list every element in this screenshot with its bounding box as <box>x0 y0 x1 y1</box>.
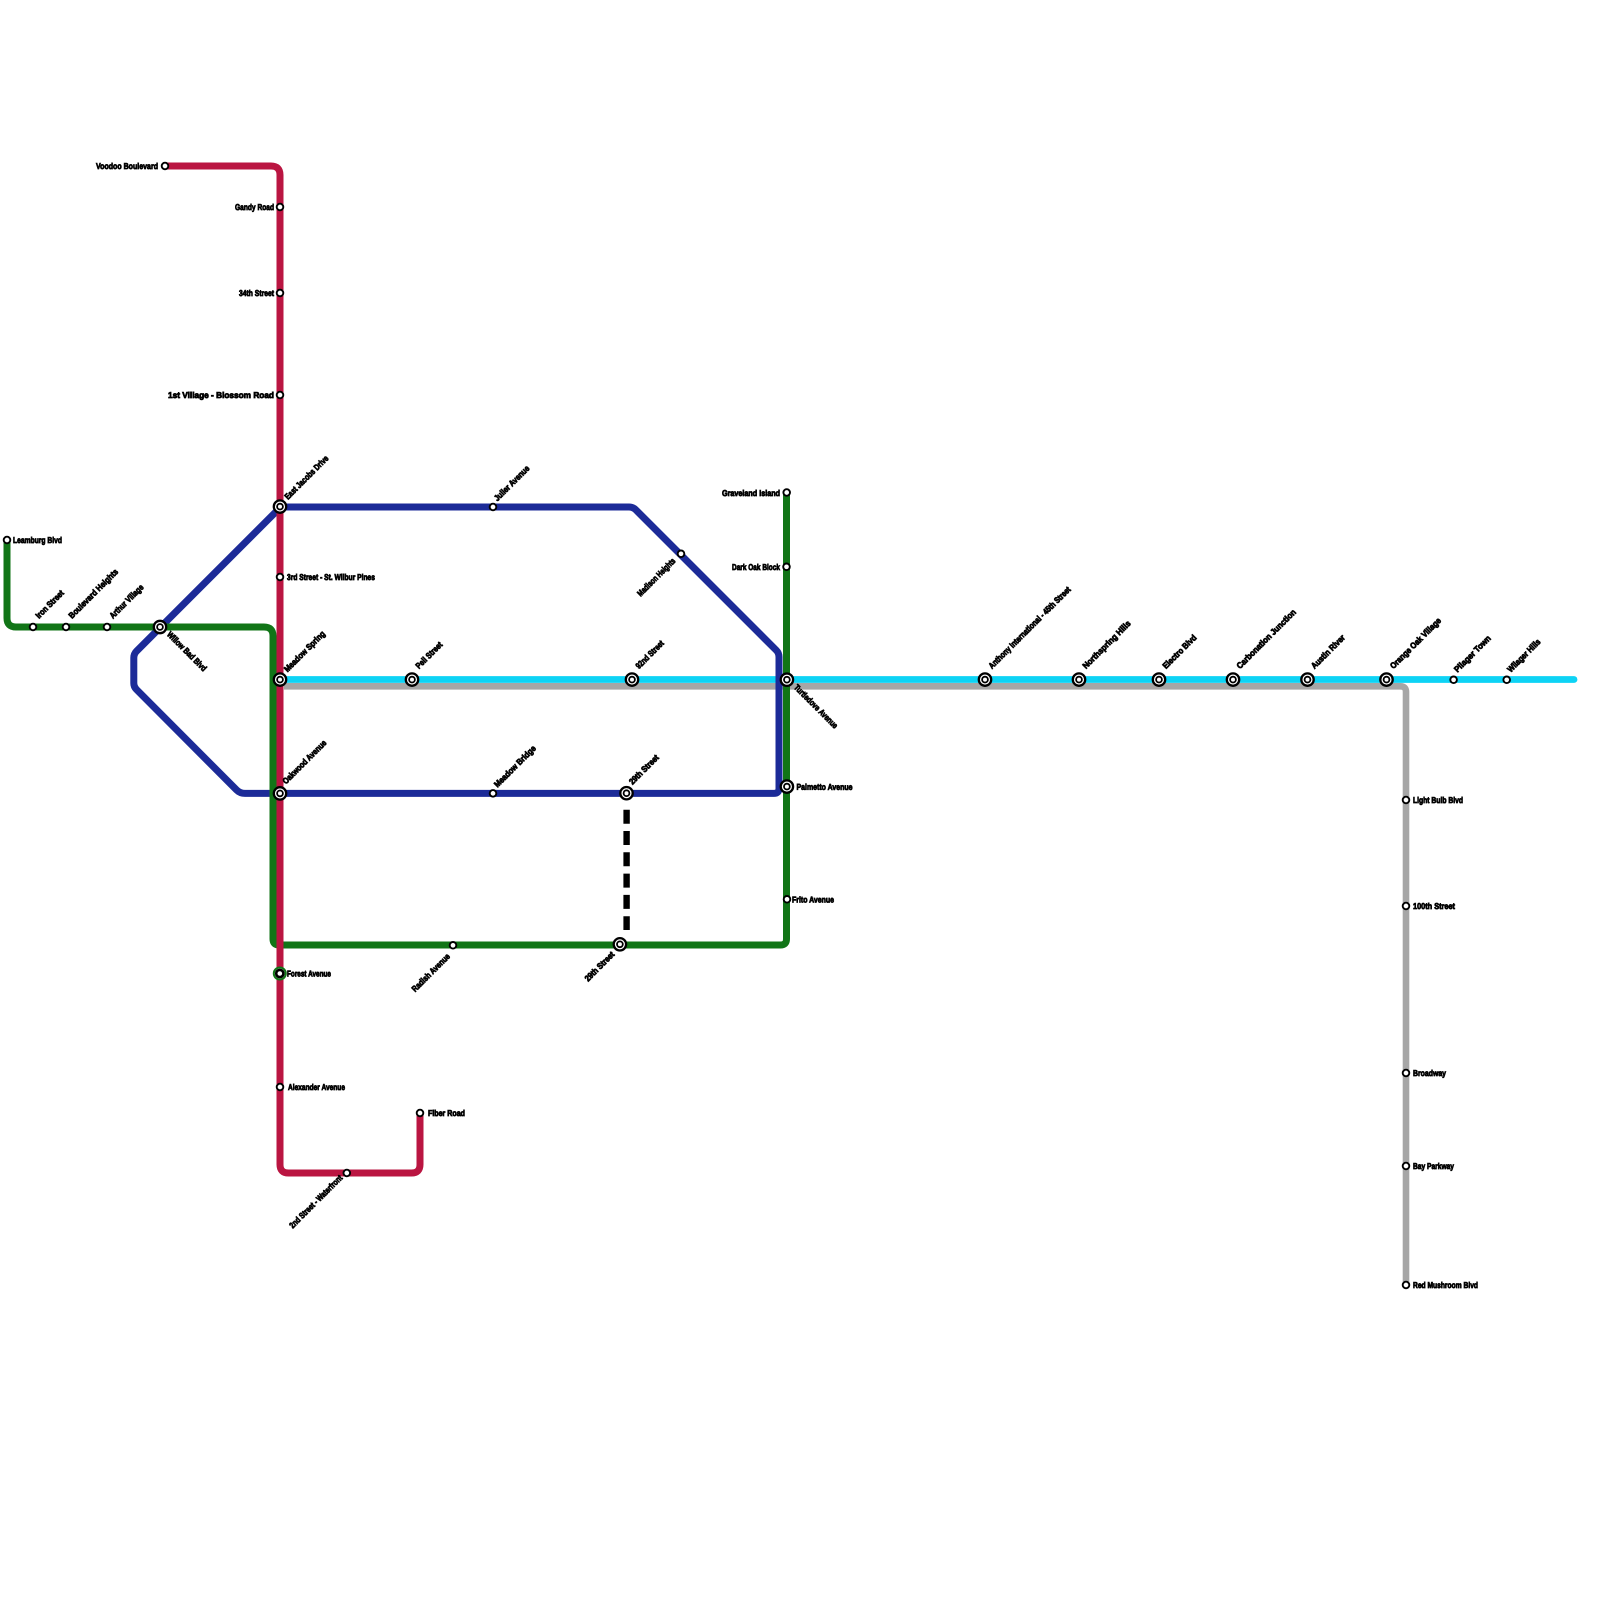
svg-text:Electro Blvd: Electro Blvd <box>1160 633 1198 671</box>
station 34th Street <box>277 290 284 297</box>
station Radish Avenue <box>450 942 457 949</box>
svg-text:Meadow Bridge: Meadow Bridge <box>492 743 538 789</box>
interchange station East Jacobs Drive <box>274 500 286 512</box>
station Broadway <box>1403 1070 1410 1077</box>
svg-text:Alexander Avenue: Alexander Avenue <box>288 1082 345 1092</box>
station Boulevard Heights <box>63 624 70 631</box>
blue line loop <box>134 507 779 793</box>
svg-text:Pilager Town: Pilager Town <box>1452 633 1493 674</box>
station 2nd Street - Waterfront <box>344 1170 351 1177</box>
svg-text:100th Street: 100th Street <box>1413 901 1455 911</box>
svg-text:Red Mushroom Blvd: Red Mushroom Blvd <box>1413 1280 1478 1290</box>
interchange station Austin River <box>1301 673 1313 685</box>
station Pilager Town <box>1450 677 1457 684</box>
station Graveland Island <box>783 489 790 496</box>
station Meadow Bridge <box>490 790 497 797</box>
station Light Bulb Blvd <box>1403 797 1410 804</box>
station Forest Avenue (green ringed) <box>274 968 286 980</box>
interchange station Pell Street <box>406 673 418 685</box>
station 100th Street <box>1403 903 1410 910</box>
svg-text:Gandy Road: Gandy Road <box>235 202 274 212</box>
svg-text:Light Bulb Blvd: Light Bulb Blvd <box>1413 795 1463 805</box>
interchange station Palmetto Avenue <box>781 780 793 792</box>
svg-text:Voodoo Boulevard: Voodoo Boulevard <box>96 161 158 171</box>
station Julier Avenue <box>490 504 497 511</box>
interchange station Northspring Hills <box>1073 673 1085 685</box>
svg-text:Iron Street: Iron Street <box>33 588 66 621</box>
cyan line <box>281 676 1574 683</box>
station Frito Avenue <box>784 896 791 903</box>
svg-text:Meadow Spring: Meadow Spring <box>282 629 327 674</box>
svg-text:Radish Avenue: Radish Avenue <box>409 951 452 994</box>
svg-text:Pell Street: Pell Street <box>413 640 444 671</box>
station Voodoo Boulevard <box>162 163 169 170</box>
dashed transfer link <box>623 810 629 930</box>
green line <box>7 491 787 945</box>
svg-text:Arthur Village: Arthur Village <box>107 582 145 620</box>
interchange station Meadow Spring <box>274 673 286 685</box>
interchange station 29th Street (blue) <box>620 787 632 799</box>
svg-text:Palmetto Avenue: Palmetto Avenue <box>796 782 852 792</box>
svg-text:Dark Oak Block: Dark Oak Block <box>732 562 780 572</box>
station Red Mushroom Blvd <box>1403 1282 1410 1289</box>
red line <box>165 166 420 1173</box>
station Wilager Hills <box>1503 677 1510 684</box>
svg-text:1st Village - Blossom Road: 1st Village - Blossom Road <box>168 390 274 400</box>
interchange station Turtledove Avenue <box>781 674 793 686</box>
interchange station 29th Street (green) <box>614 938 626 950</box>
svg-text:Bay Parkway: Bay Parkway <box>1413 1161 1454 1171</box>
svg-text:Willow Bad Blvd: Willow Bad Blvd <box>165 629 209 673</box>
svg-text:Austin River: Austin River <box>1309 632 1348 671</box>
gray line <box>284 686 1406 1285</box>
svg-text:Broadway: Broadway <box>1413 1068 1446 1078</box>
svg-text:Oakwood Avenue: Oakwood Avenue <box>280 738 328 786</box>
interchange station Oakwood Avenue <box>274 787 286 799</box>
svg-text:Frito Avenue: Frito Avenue <box>792 895 834 905</box>
interchange station Electro Blvd <box>1153 673 1165 685</box>
station 1st Village - Blossom Road <box>277 392 284 399</box>
svg-text:Madison Heights: Madison Heights <box>635 556 678 599</box>
station Fiber Road <box>417 1110 424 1117</box>
svg-text:Wilager Hills: Wilager Hills <box>1505 637 1543 675</box>
svg-text:29th Street: 29th Street <box>582 949 616 983</box>
svg-text:Forest Avenue: Forest Avenue <box>287 969 331 979</box>
station Iron Street <box>30 624 37 631</box>
interchange station Willow Bad Blvd <box>154 621 166 633</box>
station Alexander Avenue <box>277 1084 284 1091</box>
svg-text:34th Street: 34th Street <box>239 288 274 298</box>
svg-text:Orange Oak Village: Orange Oak Village <box>1388 615 1443 670</box>
station Arthur Village <box>104 624 111 631</box>
svg-text:Carbonation Junction: Carbonation Junction <box>1234 607 1298 671</box>
station 3rd Street - St. Wilbur Pines <box>277 574 284 581</box>
svg-text:Fiber Road: Fiber Road <box>428 1108 465 1118</box>
svg-text:Leamburg Blvd: Leamburg Blvd <box>13 535 62 545</box>
svg-text:2nd Street - Waterfront: 2nd Street - Waterfront <box>287 1173 344 1230</box>
svg-text:Julier Avenue: Julier Avenue <box>492 463 532 503</box>
svg-text:29th Street: 29th Street <box>627 752 661 786</box>
station Bay Parkway <box>1403 1163 1410 1170</box>
station Dark Oak Block <box>783 564 790 571</box>
interchange station Anthony International - 45th Street <box>979 673 991 685</box>
svg-text:92nd Street: 92nd Street <box>633 638 666 671</box>
svg-text:3rd Street - St. Wilbur Pines: 3rd Street - St. Wilbur Pines <box>287 572 375 582</box>
interchange station Orange Oak Village <box>1380 673 1392 685</box>
svg-text:East Jacobs Drive: East Jacobs Drive <box>282 453 330 501</box>
station Gandy Road <box>277 204 284 211</box>
interchange station Carbonation Junction <box>1227 673 1239 685</box>
svg-text:Anthony International - 45th S: Anthony International - 45th Street <box>986 584 1072 670</box>
interchange station 92nd Street <box>626 673 638 685</box>
svg-text:Graveland Island: Graveland Island <box>722 488 780 498</box>
svg-text:Northspring Hills: Northspring Hills <box>1080 618 1133 671</box>
station Leamburg Blvd <box>4 537 11 544</box>
station Madison Heights <box>678 551 685 558</box>
